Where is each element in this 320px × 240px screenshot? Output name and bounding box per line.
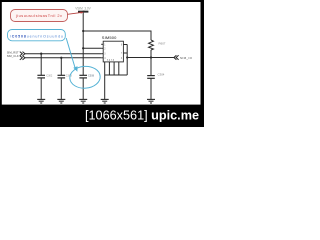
- svg-text:C508: C508: [88, 74, 95, 77]
- svg-text:5 6 7 8: 5 6 7 8: [107, 60, 115, 62]
- svg-text:SIM_CLK: SIM_CLK: [7, 54, 19, 58]
- svg-text:SIM500: SIM500: [102, 35, 117, 40]
- svg-text:C303: C303: [66, 74, 73, 77]
- svg-text:C304: C304: [158, 72, 165, 76]
- svg-text:[1066x561] upic.me: [1066x561] upic.me: [85, 108, 199, 123]
- svg-text:SIM_IO: SIM_IO: [180, 56, 193, 60]
- svg-text:C302: C302: [46, 74, 53, 77]
- svg-text:jiusuusuIsiwasTnil 2v: jiusuusuIsiwasTnil 2v: [15, 13, 62, 18]
- svg-text:lC0508uenufnOsuuhdu: lC0508uenufnOsuuhdu: [10, 35, 63, 39]
- svg-text:R607: R607: [159, 41, 166, 45]
- svg-text:SIM_RST: SIM_RST: [7, 50, 19, 54]
- svg-text:VSIM_3.0V: VSIM_3.0V: [75, 6, 91, 10]
